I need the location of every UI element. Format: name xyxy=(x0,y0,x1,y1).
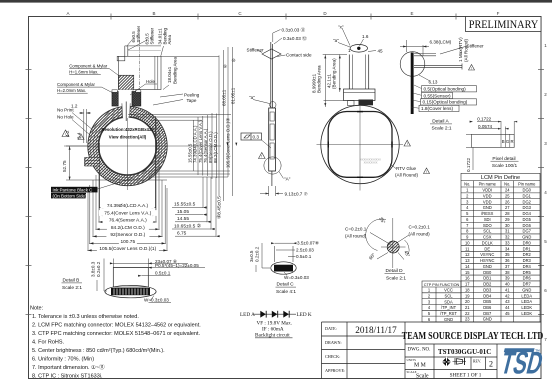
svg-text:DWG. NO.: DWG. NO. xyxy=(408,348,431,353)
back circle rim ticks xyxy=(328,112,392,178)
svg-text:DG6: DG6 xyxy=(523,223,532,228)
svg-text:DCLK: DCLK xyxy=(482,240,493,245)
svg-text:VDD: VDD xyxy=(483,199,492,204)
sensor glass horizontal xyxy=(414,65,462,67)
svg-text:28: 28 xyxy=(505,211,510,216)
svg-text:6.13: 6.13 xyxy=(429,80,438,85)
svg-text:LEDA: LEDA xyxy=(521,299,532,304)
svg-text:0.3±0.03 ⑪: 0.3±0.03 ⑪ xyxy=(282,27,306,34)
detail A stack (right) xyxy=(400,52,462,114)
svg-text:SHEET 1 OF 1: SHEET 1 OF 1 xyxy=(450,372,482,378)
svg-text:75.4(Cover Lens V.A.): 75.4(Cover Lens V.A.) xyxy=(104,211,151,217)
svg-text:CTP PIN FUNCTION: CTP PIN FUNCTION xyxy=(424,283,460,287)
warning triangle detail A xyxy=(469,65,475,71)
svg-text:0.15(Optical bonding): 0.15(Optical bonding) xyxy=(423,100,468,105)
dim labels below front view xyxy=(97,203,159,253)
svg-text:DG2: DG2 xyxy=(523,199,532,204)
svg-text:45: 45 xyxy=(378,49,384,54)
svg-text:Detail C: Detail C xyxy=(277,282,295,288)
svg-text:F: F xyxy=(497,11,500,16)
svg-text:Stiffener: Stiffener xyxy=(149,27,154,44)
svg-text:29: 29 xyxy=(505,217,510,222)
svg-text:GND: GND xyxy=(483,205,492,210)
svg-text:DG3: DG3 xyxy=(523,205,532,210)
flatness frame xyxy=(241,133,271,148)
notes xyxy=(30,306,201,380)
connector xyxy=(359,100,374,106)
svg-text:Contact side: Contact side xyxy=(286,53,312,58)
LED D1 xyxy=(260,311,266,318)
svg-text:81.05±1: 81.05±1 xyxy=(231,87,236,104)
svg-text:VDD: VDD xyxy=(483,193,492,198)
ink pantone label xyxy=(51,178,133,198)
svg-text:DB3: DB3 xyxy=(483,287,492,292)
center line through funnel xyxy=(125,102,127,122)
svg-text:12: 12 xyxy=(465,252,470,257)
svg-text:!: ! xyxy=(471,66,472,70)
LCM OD circle xyxy=(96,114,159,177)
svg-text:HSYNC: HSYNC xyxy=(480,258,494,263)
svg-text:(All round): (All round) xyxy=(345,234,367,239)
svg-text:DRAWN:: DRAWN: xyxy=(325,340,342,345)
detail A caption xyxy=(430,119,452,132)
svg-text:Pin name: Pin name xyxy=(518,182,536,187)
svg-text:20: 20 xyxy=(465,299,470,304)
svg-text:18: 18 xyxy=(465,287,470,292)
svg-text:33: 33 xyxy=(505,240,510,245)
svg-text:SDA: SDA xyxy=(444,299,453,304)
hatched sensor ring xyxy=(88,106,167,185)
left small block xyxy=(117,56,125,61)
svg-text:R: R xyxy=(510,139,513,144)
svg-text:DG1: DG1 xyxy=(523,193,532,198)
svg-text:17: 17 xyxy=(465,282,470,287)
svg-text:DR7: DR7 xyxy=(523,282,532,287)
svg-text:36: 36 xyxy=(505,258,510,263)
back view centerlines xyxy=(317,106,404,191)
svg-text:27: 27 xyxy=(505,205,510,210)
svg-text:Pin name: Pin name xyxy=(479,182,497,187)
svg-text:22: 22 xyxy=(465,311,470,316)
detail A stiffener tail xyxy=(414,46,467,56)
svg-text:Resolution:432xRGBx432: Resolution:432xRGBx432 xyxy=(101,127,154,132)
svg-text:Component & Mylar: Component & Mylar xyxy=(69,64,108,69)
svg-text:(On Bottom Side): (On Bottom Side) xyxy=(53,193,87,198)
FPC assembly above front view xyxy=(117,40,161,106)
svg-text:42: 42 xyxy=(505,293,510,298)
leader lines left labels xyxy=(66,109,167,180)
svg-text:32: 32 xyxy=(505,235,510,240)
svg-text:100.75: 100.75 xyxy=(120,239,135,245)
svg-text:⑩: ⑩ xyxy=(232,58,236,63)
svg-text:B: B xyxy=(152,11,155,16)
svg-text:SCL: SCL xyxy=(445,293,454,298)
svg-text:21: 21 xyxy=(465,305,470,310)
rotated labels above FPC xyxy=(131,25,177,84)
svg-text:44: 44 xyxy=(505,305,510,310)
projection symbols xyxy=(441,357,466,367)
svg-text:XXXXXXXX: XXXXXXXX xyxy=(364,161,378,165)
svg-text:LEDA: LEDA xyxy=(521,293,532,298)
svg-text:Bending Area: Bending Area xyxy=(317,65,322,93)
svg-text:2. LCM FPC matching connec: 2. LCM FPC matching connector: MOLEX 541… xyxy=(32,323,201,329)
LCD AA circle xyxy=(99,117,157,175)
cover lens OD circle xyxy=(88,106,167,185)
svg-text:(All Round): (All Round) xyxy=(463,39,468,62)
svg-text:14.55: 14.55 xyxy=(177,216,189,222)
svg-text:/TP_INT: /TP_INT xyxy=(441,305,457,310)
svg-text:0.5±0.1: 0.5±0.1 xyxy=(155,270,171,275)
svg-text:!: ! xyxy=(65,132,66,137)
svg-text:35: 35 xyxy=(505,252,510,257)
centerlines front view xyxy=(64,103,221,190)
svg-text:GND: GND xyxy=(522,287,531,292)
svg-text:0.5(Optical bonding): 0.5(Optical bonding) xyxy=(424,87,467,92)
side profile view xyxy=(262,42,281,186)
svg-text:Note:: Note: xyxy=(30,306,44,312)
warning triangle side view xyxy=(259,153,266,159)
svg-text:No Hole: No Hole xyxy=(57,115,74,120)
svg-text:"A": "A" xyxy=(284,177,291,182)
LCM pin define table xyxy=(461,173,540,322)
peeling tape label xyxy=(184,93,200,103)
resolution text xyxy=(101,127,154,140)
svg-text:23: 23 xyxy=(465,317,470,322)
svg-text:76.4(Sensor A.A.): 76.4(Sensor A.A.) xyxy=(109,218,147,224)
svg-text:10.65±0.5 ②: 10.65±0.5 ② xyxy=(174,223,202,229)
warning triangle RTV xyxy=(424,168,430,174)
bending area rect xyxy=(118,56,161,89)
svg-text:Scale 2:1: Scale 2:1 xyxy=(386,275,406,281)
svg-text:Hole: Hole xyxy=(146,79,155,84)
svg-text:Scale 2:1: Scale 2:1 xyxy=(431,126,451,132)
title block xyxy=(322,322,542,379)
svg-text:VDDI: VDDI xyxy=(482,188,492,193)
svg-text:DB4: DB4 xyxy=(483,293,492,298)
svg-text:GND: GND xyxy=(522,235,531,240)
svg-text:19: 19 xyxy=(465,293,470,298)
svg-text:38: 38 xyxy=(505,270,510,275)
mylar hatched block xyxy=(119,75,134,90)
left side labels front view xyxy=(57,104,82,173)
svg-text:DB0: DB0 xyxy=(483,270,492,275)
svg-text:LCM Pin Define: LCM Pin Define xyxy=(481,175,520,181)
left tab xyxy=(85,158,99,167)
detail C xyxy=(271,246,296,274)
svg-text:LED A: LED A xyxy=(240,312,255,318)
LCM body xyxy=(269,108,276,171)
zone letters top xyxy=(66,11,499,16)
svg-text:H=1.6mm Max.: H=1.6mm Max. xyxy=(69,70,98,75)
svg-text:1.2: 1.2 xyxy=(71,104,78,109)
svg-text:DR1: DR1 xyxy=(523,246,532,251)
svg-text:43: 43 xyxy=(505,299,510,304)
svg-text:9.13±0.7 ⑦: 9.13±0.7 ⑦ xyxy=(285,192,309,197)
svg-text:"a": "a" xyxy=(249,95,255,100)
outer circle xyxy=(321,105,399,183)
warning triangle back view xyxy=(404,140,410,146)
svg-text:15.55±0.5: 15.55±0.5 xyxy=(174,202,196,208)
svg-text:GND: GND xyxy=(483,264,492,269)
svg-text:84.2(LCM O.D.): 84.2(LCM O.D.) xyxy=(111,225,145,231)
svg-text:6. Uniformity : 70%. (Min): 6. Uniformity : 70%. (Min) xyxy=(32,357,94,363)
svg-text:GND: GND xyxy=(483,317,492,322)
svg-text:Scale 2:1: Scale 2:1 xyxy=(62,285,82,291)
right side vertical dim labels of front view xyxy=(188,118,231,168)
svg-text:Pixel detail: Pixel detail xyxy=(492,156,515,162)
svg-text:41: 41 xyxy=(505,287,510,292)
svg-text:5. Center brightness : 850: 5. Center brightness : 850 cd/m²(Typ.) 6… xyxy=(32,348,165,354)
svg-text:31: 31 xyxy=(505,229,510,234)
svg-text:1 Max(RTV): 1 Max(RTV) xyxy=(458,37,463,62)
svg-text:0.5±0.1: 0.5±0.1 xyxy=(296,254,312,259)
svg-text:DG4: DG4 xyxy=(523,211,532,216)
svg-text:1: 1 xyxy=(348,48,351,53)
svg-text:Detail D: Detail D xyxy=(386,268,404,274)
svg-text:Area: Area xyxy=(167,34,172,44)
svg-text:1.8(Cover lens): 1.8(Cover lens) xyxy=(421,106,453,111)
svg-text:VSYNC: VSYNC xyxy=(480,252,494,257)
top ellipse cap xyxy=(350,45,367,53)
100.75 circle xyxy=(90,108,165,183)
svg-text:C=0.2±0.1: C=0.2±0.1 xyxy=(409,225,431,230)
back view labels xyxy=(312,25,419,178)
svg-text:Scale 100/1: Scale 100/1 xyxy=(492,163,518,169)
svg-text:LEDK: LEDK xyxy=(521,305,532,310)
svg-text:!: ! xyxy=(426,170,427,174)
svg-text:39: 39 xyxy=(505,276,510,281)
svg-text:DB2: DB2 xyxy=(483,282,492,287)
svg-text:No.: No. xyxy=(504,182,510,187)
svg-text:6.75: 6.75 xyxy=(177,231,187,237)
svg-text:!: ! xyxy=(81,136,82,140)
svg-text:PRELIMINARY: PRELIMINARY xyxy=(469,19,539,32)
svg-text:2.5±0.03: 2.5±0.03 xyxy=(296,248,314,253)
svg-text:TEAM SOURCE DISPLAY TECH. LTD: TEAM SOURCE DISPLAY TECH. LTD xyxy=(402,331,544,342)
svg-text:(All Round): (All Round) xyxy=(395,173,418,178)
svg-text:!: ! xyxy=(407,142,408,146)
svg-text:40: 40 xyxy=(505,282,510,287)
svg-text:3.5±0.07⑧: 3.5±0.07⑧ xyxy=(297,241,320,246)
svg-text:1.6: 1.6 xyxy=(362,34,369,39)
svg-text:UNITS: UNITS xyxy=(407,358,417,362)
svg-text:Bending Area: Bending Area xyxy=(172,56,177,84)
white funnel through ring xyxy=(118,90,132,118)
boxed layer labels xyxy=(419,86,477,112)
svg-text:W=0.3±0.03: W=0.3±0.03 xyxy=(144,297,169,302)
horizontal line bundle right of front view xyxy=(143,47,233,201)
svg-text:SDI: SDI xyxy=(484,217,491,222)
svg-text:Scale: Scale xyxy=(416,374,429,380)
component & mylar labels xyxy=(57,64,155,94)
svg-text:1. Tolerance is ±0.3 unles: 1. Tolerance is ±0.3 unless otherwise no… xyxy=(32,314,139,320)
svg-text:DB7: DB7 xyxy=(483,311,492,316)
right numeric dims xyxy=(174,196,223,237)
svg-text:52.75: 52.75 xyxy=(62,160,67,172)
sensor OD circle xyxy=(93,112,162,181)
svg-text:0.2±0.2: 0.2±0.2 xyxy=(96,261,101,277)
svg-text:74.39Ø4(LCD A.A.): 74.39Ø4(LCD A.A.) xyxy=(107,203,149,209)
svg-text:0.55(Sensor): 0.55(Sensor) xyxy=(424,93,452,98)
svg-text:DR4: DR4 xyxy=(523,264,532,269)
LED D2 xyxy=(272,311,278,318)
svg-text:/RESX: /RESX xyxy=(481,211,494,216)
FPC ribbon xyxy=(348,55,350,90)
svg-text:DR0: DR0 xyxy=(523,240,532,245)
svg-text:DG7: DG7 xyxy=(523,229,532,234)
svg-text:Stiffener: Stiffener xyxy=(247,48,264,53)
CTP pin function table xyxy=(422,281,461,322)
svg-text:0.0574: 0.0574 xyxy=(478,124,492,129)
svg-text:Scale 4:1: Scale 4:1 xyxy=(276,289,296,295)
preliminary box xyxy=(466,17,542,32)
svg-text:DATE:: DATE: xyxy=(325,326,337,331)
svg-text:6.38(LCM): 6.38(LCM) xyxy=(430,40,452,45)
svg-text:DB6: DB6 xyxy=(483,305,492,310)
svg-text:Stiffener: Stiffener xyxy=(136,25,141,42)
detail B (bottom-left FPC end) xyxy=(105,268,156,298)
zone ticks top xyxy=(111,14,456,20)
68.05 / 81.05 vertical dims xyxy=(222,58,236,106)
svg-text:APPROVE:: APPROVE: xyxy=(325,368,345,373)
LED D3 xyxy=(283,311,289,318)
warning triangles left xyxy=(62,130,84,140)
svg-text:"x": "x" xyxy=(338,25,344,30)
svg-text:LEDK: LEDK xyxy=(521,311,532,316)
svg-text:37: 37 xyxy=(505,264,510,269)
stiffener block xyxy=(344,89,376,101)
svg-text:TST030GGU-01C: TST030GGU-01C xyxy=(438,349,491,356)
svg-text:11: 11 xyxy=(465,246,470,251)
TSD logo xyxy=(497,346,546,381)
svg-text:M M: M M xyxy=(414,363,426,369)
svg-text:15: 15 xyxy=(465,270,470,275)
svg-text:DB1: DB1 xyxy=(483,276,492,281)
svg-text:SCL: SCL xyxy=(483,229,492,234)
svg-text:(All round): (All round) xyxy=(409,232,431,237)
svg-text:DR5: DR5 xyxy=(523,270,532,275)
vertical dim lines for rotated labels xyxy=(128,113,231,179)
svg-text:105.5(Cover Lens O.D.)(1): 105.5(Cover Lens O.D.)(1) xyxy=(99,246,156,252)
top window bar xyxy=(0,0,552,3)
svg-text:LED K: LED K xyxy=(297,312,312,318)
svg-text:TM: TM xyxy=(535,349,540,353)
svg-text:Component & Mylar: Component & Mylar xyxy=(57,82,96,87)
wire LED A to LED K xyxy=(254,313,296,315)
svg-text:(Bending Area): (Bending Area) xyxy=(332,58,337,89)
svg-text:3±0.5: 3±0.5 xyxy=(249,250,254,262)
svg-text:DR2: DR2 xyxy=(523,252,532,257)
zone numbers right xyxy=(544,43,547,342)
back view xyxy=(321,45,399,184)
svg-text:Peeling: Peeling xyxy=(184,93,200,98)
svg-text:Stiffener: Stiffener xyxy=(467,44,484,49)
inner rounded-square LCM outline xyxy=(328,112,392,178)
svg-text:13: 13 xyxy=(465,258,470,263)
svg-text:Tape: Tape xyxy=(187,98,197,103)
svg-text:RTV Glue: RTV Glue xyxy=(396,166,417,171)
svg-text:DR6: DR6 xyxy=(523,276,532,281)
thick cover lens edge xyxy=(411,53,414,115)
a marker circle xyxy=(270,102,276,108)
svg-text:H=2.0mm Max.: H=2.0mm Max. xyxy=(57,88,86,93)
label text in back circle xyxy=(360,158,381,165)
dim rows below front view xyxy=(87,116,167,251)
svg-text:No.: No. xyxy=(464,182,470,187)
svg-text:88.2(LCM O.D.): 88.2(LCM O.D.) xyxy=(213,132,218,163)
svg-text:16: 16 xyxy=(465,276,470,281)
svg-text:Ink:Pantone Black C: Ink:Pantone Black C xyxy=(53,187,93,192)
stiffener diamond xyxy=(262,49,281,59)
FPC connector blocks xyxy=(112,92,118,107)
svg-text:45: 45 xyxy=(505,311,510,316)
front view: circular LCD module xyxy=(88,106,167,185)
svg-text:④8.45±0.5: ④8.45±0.5 xyxy=(217,196,223,219)
svg-text:0.3: 0.3 xyxy=(253,135,260,140)
svg-text:GND: GND xyxy=(444,317,453,322)
svg-text:!: ! xyxy=(261,155,262,159)
svg-text:View direction(All): View direction(All) xyxy=(109,135,147,140)
svg-text:E: E xyxy=(410,11,413,16)
svg-text:8. CTP IC : Sitronix ST16: 8. CTP IC : Sitronix ST1633i. xyxy=(32,374,103,380)
svg-text:"a": "a" xyxy=(333,38,339,43)
LED backlight circuit xyxy=(240,312,312,339)
svg-text:0.3±0.03 ⑫: 0.3±0.03 ⑫ xyxy=(283,35,307,42)
svg-text:15.05: 15.05 xyxy=(177,209,189,215)
svg-text:DE: DE xyxy=(484,246,490,251)
svg-text:92(Sensor O.D.): 92(Sensor O.D.) xyxy=(110,232,145,238)
svg-text:DG0: DG0 xyxy=(523,188,532,193)
svg-text:A: A xyxy=(66,11,69,16)
svg-text:68.05±1: 68.05±1 xyxy=(222,89,227,106)
svg-text:CSX: CSX xyxy=(483,235,492,240)
svg-text:26: 26 xyxy=(505,199,510,204)
svg-text:4. For RoHS.: 4. For RoHS. xyxy=(32,340,65,346)
dim row arrowheads xyxy=(69,46,473,252)
pixel detail xyxy=(472,121,515,147)
detail A balloon on side view xyxy=(264,157,281,174)
svg-text:DG5: DG5 xyxy=(523,217,532,222)
svg-text:Detail B: Detail B xyxy=(63,278,80,284)
svg-text:SDO: SDO xyxy=(483,223,492,228)
FPC tail stub xyxy=(124,46,126,56)
svg-text:DB5: DB5 xyxy=(483,299,492,304)
svg-text:3.8±0.3: 3.8±0.3 xyxy=(91,261,96,277)
svg-text:Detail A: Detail A xyxy=(432,119,449,125)
svg-text:DR3: DR3 xyxy=(523,258,532,263)
svg-text:14: 14 xyxy=(465,264,470,269)
svg-text:/TP_RST: /TP_RST xyxy=(440,311,457,316)
svg-text:24: 24 xyxy=(505,188,510,193)
svg-text:2: 2 xyxy=(489,360,493,369)
svg-text:0.2±0.2: 0.2±0.2 xyxy=(255,246,260,262)
svg-text:C=0.2±0.1: C=0.2±0.1 xyxy=(345,227,367,232)
svg-text:3. CTP FPC matching connec: 3. CTP FPC matching connector: MOLEX 515… xyxy=(32,331,201,337)
svg-text:7. Important dimension. ①~⑪: 7. Important dimension. ①~⑪ xyxy=(32,363,105,371)
svg-text:34: 34 xyxy=(505,246,510,251)
svg-text:B: B xyxy=(502,139,505,144)
svg-text:W=0.3±0.03: W=0.3±0.03 xyxy=(284,275,309,280)
svg-text:CHECK:: CHECK: xyxy=(325,354,340,359)
svg-text:VCC: VCC xyxy=(444,288,453,293)
svg-text:25: 25 xyxy=(505,193,510,198)
svg-text:REV.: REV. xyxy=(473,360,481,364)
detail D xyxy=(366,218,409,268)
svg-text:10: 10 xyxy=(465,240,470,245)
svg-text:0.1722: 0.1722 xyxy=(466,158,471,172)
svg-text:2018/11/17: 2018/11/17 xyxy=(355,325,397,335)
svg-text:30: 30 xyxy=(505,223,510,228)
